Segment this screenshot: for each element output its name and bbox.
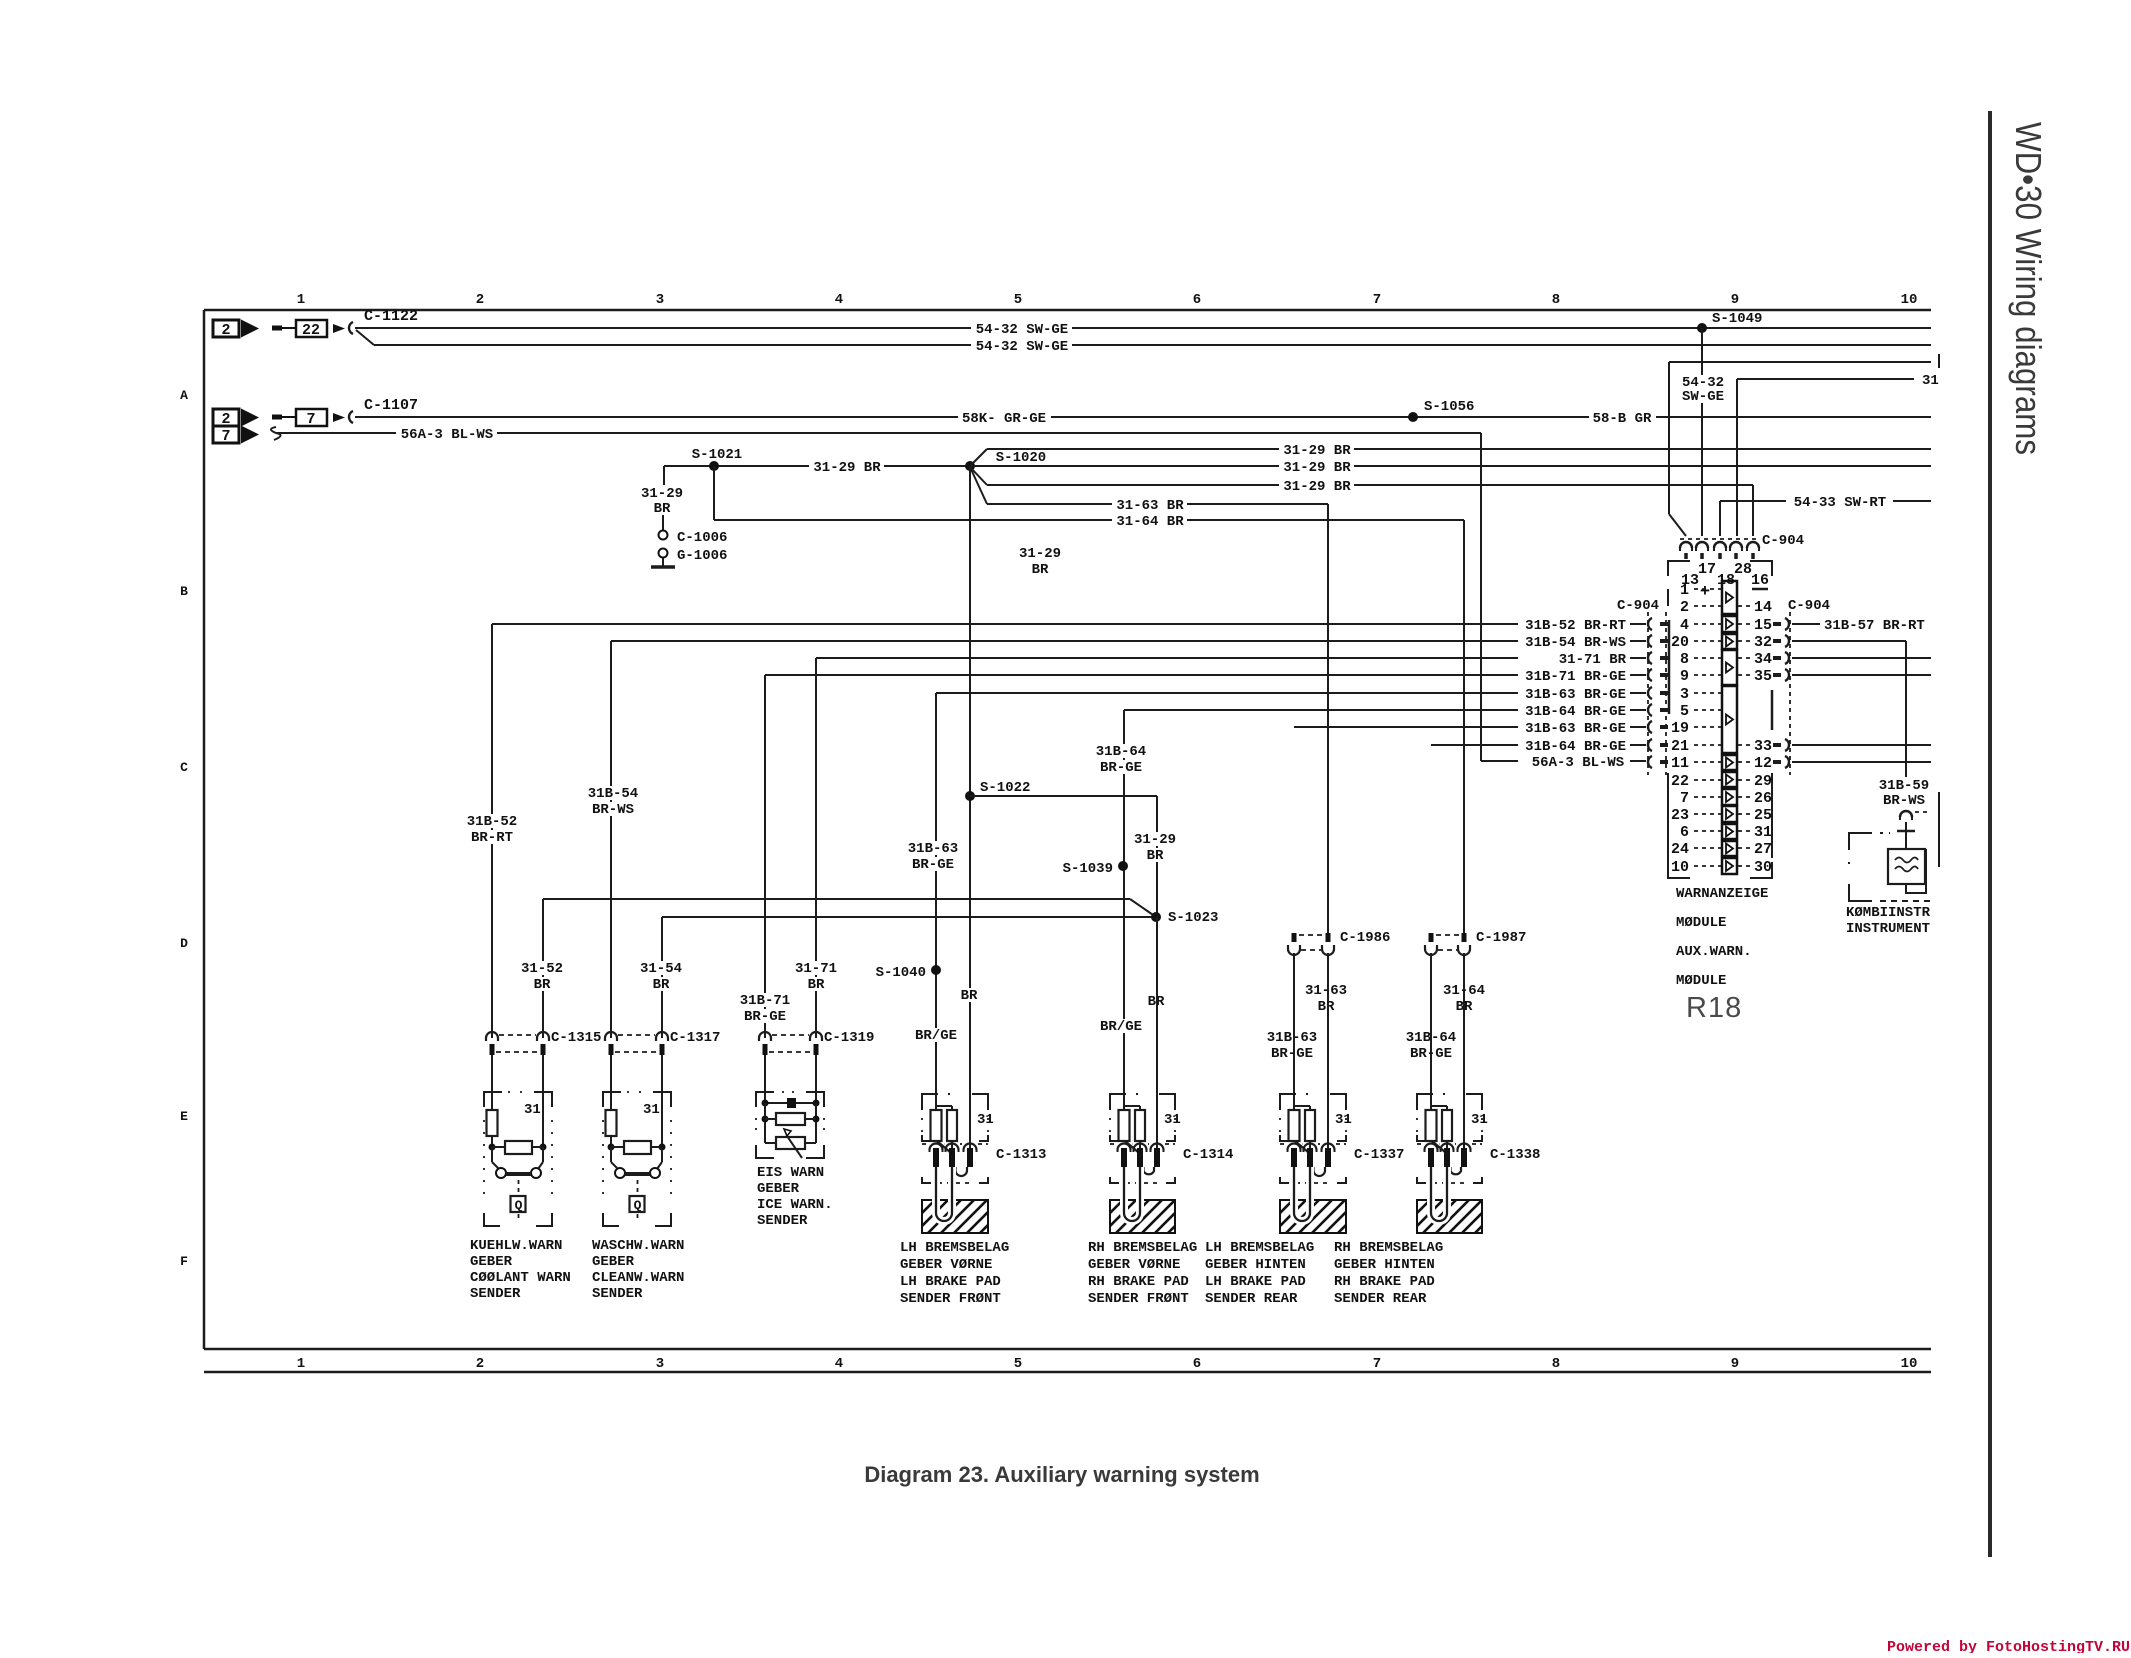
svg-text:3: 3 [656,1356,664,1372]
wire 31B-63 BR-GE horizontal (pin 19) [1294,726,1518,728]
svg-text:20: 20 [1671,634,1689,651]
pin 2 dashed lead [1694,605,1721,607]
pin 15 dashed lead (right) [1738,623,1751,625]
pin 34 dashed lead (right) [1738,657,1751,659]
svg-text:34: 34 [1754,651,1772,668]
svg-text:31B-54: 31B-54 [588,786,638,802]
svg-text:11: 11 [1671,755,1689,772]
svg-text:R18: R18 [1686,992,1742,1024]
svg-text:BR: BR [808,977,825,993]
svg-text:4: 4 [835,292,843,308]
svg-text:KØMBIINSTR: KØMBIINSTR [1846,905,1931,921]
wire 31B-63 BR-GE vertical (S-1040) [935,693,937,1110]
svg-text:SENDER FRØNT: SENDER FRØNT [1088,1291,1189,1307]
pin 21 dashed lead [1694,744,1721,746]
wire break squiggle 56A-3 [271,427,281,440]
module pin 33 right connector [1773,743,1781,747]
svg-text:6: 6 [1680,824,1689,841]
pin 5 dashed lead [1694,709,1721,711]
svg-text:LH BRAKE PAD: LH BRAKE PAD [900,1274,1001,1290]
module pin 34 right connector [1773,656,1781,660]
svg-text:31: 31 [1922,373,1939,389]
wire 31-29 BR vertical to sender 5 [1156,917,1158,1148]
svg-text:9: 9 [1680,668,1689,685]
gauge right edge wire [1925,849,1927,884]
pin 14 dashed lead (right) [1738,605,1751,607]
wire fan S-1020 up [970,449,987,466]
svg-text:3: 3 [1680,686,1689,703]
module right edge lower [1771,773,1773,858]
ice sender top branch [765,1102,816,1104]
wire 31-29 BR S-1021 to S-1020 [664,465,970,467]
svg-text:Q: Q [634,1198,642,1213]
ice sender lower branch [765,1142,816,1144]
svg-text:31B-57 BR-RT: 31B-57 BR-RT [1824,618,1925,634]
svg-text:25: 25 [1754,807,1772,824]
svg-text:BR-GE: BR-GE [744,1009,786,1025]
svg-text:GEBER: GEBER [757,1181,800,1197]
svg-text:C-1317: C-1317 [670,1030,720,1046]
LH rear brake pad sender [1280,1094,1296,1110]
svg-text:SENDER REAR: SENDER REAR [1205,1291,1298,1307]
pin 25 dashed lead (right) [1738,813,1751,815]
svg-text:LH BREMSBELAG: LH BREMSBELAG [1205,1240,1314,1256]
pin 31 dashed lead (right) [1738,830,1751,832]
svg-text:7: 7 [1680,790,1689,807]
C-904 top dashed line [1680,538,1759,540]
svg-text:S-1023: S-1023 [1168,910,1218,926]
svg-text:C-904: C-904 [1788,598,1830,614]
svg-text:31-29: 31-29 [1134,832,1176,848]
svg-text:31B-52: 31B-52 [467,814,517,830]
svg-text:31-71 BR: 31-71 BR [1559,652,1627,668]
svg-text:2: 2 [476,292,484,308]
pin 6 dashed lead [1694,830,1721,832]
svg-text:31B-63: 31B-63 [908,841,958,857]
contact loop halo [1431,1167,1447,1221]
pin 9 dashed lead [1694,674,1721,676]
wire 54-33 SW-RT vertical to pin 18 [1719,501,1721,536]
svg-text:BR: BR [1318,999,1335,1015]
svg-text:BR-GE: BR-GE [1100,760,1142,776]
svg-text:54-32 SW-GE: 54-32 SW-GE [976,322,1068,338]
LH front brake pad sender [922,1094,938,1110]
svg-text:1: 1 [297,292,305,308]
contact loop halo [1294,1167,1310,1221]
pad sense jumper [1451,1167,1462,1174]
svg-text:30: 30 [1754,859,1772,876]
svg-text:58K- GR-GE: 58K- GR-GE [962,411,1046,427]
svg-text:31B-52 BR-RT: 31B-52 BR-RT [1525,618,1626,634]
svg-text:6: 6 [1193,1356,1201,1372]
svg-text:BR: BR [654,501,671,517]
wire 54-32 SW-GE (2) [374,344,1931,346]
svg-text:BR: BR [653,977,670,993]
svg-text:31-29: 31-29 [1019,546,1061,562]
svg-text:26: 26 [1754,790,1772,807]
splice S-1039 [1118,861,1128,871]
svg-text:19: 19 [1671,720,1689,737]
wire 56A-3 BL-WS [276,432,1481,434]
wire 31-52 BR vertical [542,899,544,1038]
svg-text:31-63 BR: 31-63 BR [1116,498,1184,514]
svg-text:C-1319: C-1319 [824,1030,874,1046]
svg-text:58-B GR: 58-B GR [1593,411,1652,427]
svg-text:10: 10 [1901,1356,1918,1372]
svg-text:31-54: 31-54 [640,961,682,977]
pin 23 dashed lead [1694,813,1721,815]
svg-text:1: 1 [1680,582,1689,599]
svg-text:A: A [180,388,188,403]
wire 31-52 BR diagonal to S-1023 [1130,899,1156,917]
off-page connector arrow 2 (mid) [213,409,239,426]
svg-text:RH BRAKE PAD: RH BRAKE PAD [1334,1274,1435,1290]
svg-text:SENDER FRØNT: SENDER FRØNT [900,1291,1001,1307]
washer warn sender (WASCHW.WARN GEBER) [610,1055,612,1110]
svg-text:31B-71 BR-GE: 31B-71 BR-GE [1525,669,1626,685]
module left edge lower [1667,773,1669,862]
RH front brake pad sender [1110,1094,1126,1110]
svg-text:C-1313: C-1313 [996,1147,1046,1163]
svg-text:4: 4 [835,1356,843,1372]
wire 31-29 BR vertical S-1020 down [969,466,971,1148]
svg-text:8: 8 [1552,292,1560,308]
wire 31B-64 BR-GE to sender 7 [1430,953,1432,1110]
pin 1 dashed lead [1694,588,1721,590]
connector C-1317 [605,1032,617,1041]
svg-text:6: 6 [1193,292,1201,308]
diode D11 (pin 10/30) [1722,858,1737,874]
diode D1 (pins 1-2/14) [1722,581,1737,614]
svg-text:9: 9 [1731,292,1739,308]
variable resistor arrow [787,1136,802,1158]
wire 31-71 BR horizontal (pin 8) [816,657,1518,659]
pin 10 dashed lead [1694,865,1721,867]
wire 31-54 BR horizontal [662,916,1156,918]
svg-text:Q: Q [515,1198,523,1213]
diode D2 (pin 4/15) [1722,616,1737,632]
wire 58K- GR-GE / 58-B GR [355,416,1931,418]
svg-text:31-29 BR: 31-29 BR [1283,460,1351,476]
connector C-904 (top, module R18) [1680,542,1692,548]
pin 11 dashed lead [1694,761,1721,763]
svg-text:7: 7 [221,428,230,445]
svg-text:31: 31 [1335,1112,1352,1128]
wire 54-32 SW-GE S-1049 to pin 17 [1701,328,1703,536]
splice S-1040 [931,965,941,975]
polarity - mark [1752,588,1768,591]
pad sense jumper [1144,1167,1155,1174]
svg-text:31-71: 31-71 [795,961,837,977]
svg-text:C-1122: C-1122 [364,308,418,325]
svg-text:MØDULE: MØDULE [1676,973,1726,989]
splice S-1049 [1697,323,1707,333]
wire 54-32 SW-GE (1) [355,327,1931,329]
svg-text:B: B [180,584,188,599]
svg-text:G-1006: G-1006 [677,548,727,564]
svg-text:24: 24 [1671,841,1689,858]
wire S-1021 vertical drop [713,466,715,520]
svg-text:7: 7 [1373,1356,1381,1372]
wire 31-63 BR vertical to C-1986 [1327,504,1329,934]
svg-text:56A-3 BL-WS: 56A-3 BL-WS [1532,755,1624,771]
svg-text:SW-GE: SW-GE [1682,389,1724,405]
diode D3 (pin 20/32) [1722,634,1737,649]
diode D8 (pin 23/25) [1722,806,1737,822]
svg-text:BR/GE: BR/GE [1100,1019,1142,1035]
wire to module pin 13 [1669,361,1931,363]
wire 31-64 BR vertical to C-1987 [1463,520,1465,934]
pad sense jumper [1314,1167,1326,1176]
connector C-1315 [486,1032,498,1041]
svg-text:5: 5 [1680,703,1689,720]
svg-text:31B-63: 31B-63 [1267,1030,1317,1046]
wire pin 13 diagonal [1669,514,1686,536]
pin 12 dashed lead (right) [1738,761,1751,763]
svg-text:E: E [180,1109,188,1124]
svg-text:GEBER VØRNE: GEBER VØRNE [1088,1257,1180,1273]
wire pin 12 right [1792,761,1931,763]
svg-text:AUX.WARN.: AUX.WARN. [1676,944,1752,960]
svg-text:33: 33 [1754,738,1772,755]
svg-text:WARNANZEIGE: WARNANZEIGE [1676,886,1768,902]
module pin 12 right connector [1773,760,1781,764]
pad wear contact loop [936,1167,952,1221]
aux warning module R18 outline [1668,561,1690,576]
svg-text:31: 31 [977,1112,994,1128]
svg-text:MØDULE: MØDULE [1676,915,1726,931]
frame bottom border [204,1348,1931,1351]
wire 31B-52 BR-RT vertical [491,624,493,1038]
svg-text:27: 27 [1754,841,1772,858]
svg-text:Powered by FotoHostingTV.RU: Powered by FotoHostingTV.RU [1887,1639,2130,1653]
off-page connector arrow 7 [213,426,239,443]
svg-text:C: C [180,760,188,775]
wire 31B-63 BR-GE horizontal (pin 3) [936,692,1518,694]
pin 7 dashed lead [1694,796,1721,798]
module pin 15 right connector [1773,622,1781,626]
connector C-1122 pin [349,322,353,334]
svg-text:KUEHLW.WARN: KUEHLW.WARN [470,1238,562,1254]
svg-text:CØØLANT WARN: CØØLANT WARN [470,1270,571,1286]
svg-text:31B-59: 31B-59 [1879,778,1929,794]
svg-text:31B-64: 31B-64 [1096,744,1146,760]
svg-text:C-904: C-904 [1617,598,1659,614]
wire 31B-64 BR-GE vertical (S-1039) [1123,710,1125,1110]
diode D6 (pin 22/29) [1722,772,1737,787]
svg-text:S-1039: S-1039 [1063,861,1113,877]
wire 31B-71 BR-GE horizontal (pin 9) [765,674,1518,676]
svg-text:22: 22 [1671,773,1689,790]
svg-text:BR-RT: BR-RT [471,830,513,846]
svg-text:SENDER: SENDER [592,1286,643,1302]
off-page connector arrow 2 (top) [213,320,239,337]
diode D7 (pin 7/26) [1722,789,1737,805]
svg-text:7: 7 [306,411,315,428]
svg-text:C-1986: C-1986 [1340,930,1390,946]
wire 31-54 BR vertical [661,917,663,1038]
pin 35 dashed lead (right) [1738,674,1751,676]
svg-text:Diagram 23. Auxiliary warning: Diagram 23. Auxiliary warning system [864,1462,1259,1487]
svg-text:31B-64 BR-GE: 31B-64 BR-GE [1525,704,1626,720]
pin 20 dashed lead [1694,640,1721,642]
contact loop halo [1124,1167,1140,1221]
svg-text:RH BREMSBELAG: RH BREMSBELAG [1334,1240,1443,1256]
pad wear contact loop [1431,1167,1447,1221]
wire 31B-63 BR-GE to sender 6 [1293,953,1295,1110]
wire 54-33 SW-RT right segment [1893,500,1931,502]
module pin 35 right connector [1773,673,1781,677]
svg-text:2: 2 [1680,599,1689,616]
svg-text:BR: BR [1147,848,1164,864]
right border tick 2 [1938,792,1940,867]
connector pin into instrument cluster [1900,811,1912,817]
svg-text:S-1021: S-1021 [692,447,742,463]
pin 8 dashed lead [1694,657,1721,659]
svg-text:31B-63 BR-GE: 31B-63 BR-GE [1525,687,1626,703]
svg-text:54-33 SW-RT: 54-33 SW-RT [1794,495,1886,511]
svg-text:C-1987: C-1987 [1476,930,1526,946]
wire 31-63 BR [987,503,1328,505]
wire S-1022 to S-1023 vertical [1156,796,1158,917]
svg-text:31: 31 [643,1102,660,1118]
connector C-1987 [1429,933,1434,942]
svg-text:1: 1 [297,1356,305,1372]
wire pin 34 right [1792,657,1931,659]
ice warn sender (EIS WARN GEBER) [764,1055,766,1103]
svg-text:5: 5 [1014,292,1022,308]
wire ground stub lower [662,515,664,530]
bottom ruler line [204,1371,1931,1374]
svg-text:BR-WS: BR-WS [592,802,634,818]
svg-text:SENDER: SENDER [757,1213,808,1229]
frame top border [204,309,1931,312]
svg-text:31: 31 [524,1102,541,1118]
wire 31B-54 BR-WS horizontal (pin 20) [611,640,1518,642]
ground symbol G-1006 [651,565,675,569]
svg-text:29: 29 [1754,773,1772,790]
wire pin 33 right [1792,744,1931,746]
wire 31B-52 BR-RT horizontal (pin 4) [492,623,1518,625]
wire 31-29 BR (row1) [987,448,1931,450]
svg-text:S-1040: S-1040 [876,965,926,981]
wire S-1022 to S-1023 horizontal [970,795,1157,797]
pin 30 dashed lead (right) [1738,865,1751,867]
svg-text:S-1049: S-1049 [1712,311,1762,327]
svg-text:RH BREMSBELAG: RH BREMSBELAG [1088,1240,1197,1256]
ground lead [662,558,664,566]
svg-text:3: 3 [656,292,664,308]
connector C-1107 pin [349,411,353,423]
svg-text:31-29 BR: 31-29 BR [1283,479,1351,495]
contact loop halo [936,1167,952,1221]
RH rear brake pad sender [1417,1094,1433,1110]
svg-text:D: D [180,936,188,951]
diode D5 (pin 11/12) [1722,755,1737,770]
svg-text:C-1315: C-1315 [551,1030,601,1046]
svg-text:C-1337: C-1337 [1354,1147,1404,1163]
svg-text:BR-GE: BR-GE [1271,1046,1313,1062]
svg-text:56A-3 BL-WS: 56A-3 BL-WS [401,427,493,443]
ice sender resistor branch [765,1118,816,1120]
svg-text:GEBER: GEBER [592,1254,635,1270]
connector G-1006 [659,549,668,558]
svg-text:17: 17 [1698,561,1716,578]
wire 31-63 BR to sender 6 [1327,953,1329,1148]
svg-text:BR: BR [534,977,551,993]
svg-text:8: 8 [1552,1356,1560,1372]
svg-text:35: 35 [1754,668,1772,685]
svg-text:31: 31 [1471,1112,1488,1128]
svg-text:C-1314: C-1314 [1183,1147,1233,1163]
svg-text:GEBER HINTEN: GEBER HINTEN [1334,1257,1435,1273]
svg-text:31: 31 [1164,1112,1181,1128]
connector C-1986 [1292,933,1297,942]
svg-text:BR-GE: BR-GE [912,857,954,873]
splice S-1022 [965,791,975,801]
wire 56A-3 BL-WS to module pin 11 [1481,760,1518,762]
svg-text:16: 16 [1751,572,1769,589]
wire fan S-1020 down2 [970,467,987,504]
svg-text:WD•30 Wiring diagrams: WD•30 Wiring diagrams [2008,122,2049,455]
svg-text:31-29 BR: 31-29 BR [813,460,881,476]
svg-text:GEBER HINTEN: GEBER HINTEN [1205,1257,1306,1273]
svg-text:SENDER: SENDER [470,1286,521,1302]
svg-text:32: 32 [1754,634,1772,651]
svg-text:ICE WARN.: ICE WARN. [757,1197,833,1213]
wire 31-29 BR (row2) [970,465,1931,467]
wire 31B-54 BR-WS vertical [610,641,612,1038]
diode D9 (pin 6/31) [1722,824,1737,839]
pin 27 dashed lead (right) [1738,847,1751,849]
wire 31-64 BR horizontal [714,519,1464,521]
connector C-904 (left, module R18) [1647,612,1649,775]
svg-text:22: 22 [302,322,320,339]
svg-text:EIS WARN: EIS WARN [757,1165,824,1181]
svg-text:2: 2 [221,322,230,339]
svg-text:28: 28 [1734,561,1752,578]
svg-text:8: 8 [1680,651,1689,668]
wire 31-71 BR vertical [815,658,817,1038]
coolant warn sender (KUEHLW.WARN GEBER) [491,1055,493,1110]
diode D4 (pins 8-9/34-35) [1722,650,1737,685]
svg-text:31B-54 BR-WS: 31B-54 BR-WS [1525,635,1626,651]
pin 4 dashed lead [1694,623,1721,625]
svg-text:10: 10 [1671,859,1689,876]
svg-text:10: 10 [1901,292,1918,308]
wire pin 32 to instrument [1792,640,1906,642]
svg-text:21: 21 [1671,738,1689,755]
pin 29 dashed lead (right) [1738,779,1751,781]
svg-text:2: 2 [476,1356,484,1372]
pin 26 dashed lead (right) [1738,796,1751,798]
svg-text:54-32 SW-GE: 54-32 SW-GE [976,339,1068,355]
svg-text:F: F [180,1254,188,1269]
svg-text:CLEANW.WARN: CLEANW.WARN [592,1270,684,1286]
wire 31B-64 BR-GE horizontal (pin 21) [1431,744,1518,746]
svg-text:C-904: C-904 [1762,533,1804,549]
svg-text:INSTRUMENT: INSTRUMENT [1846,921,1930,937]
svg-text:WASCHW.WARN: WASCHW.WARN [592,1238,684,1254]
variable resistor (ice sender) [776,1137,805,1149]
svg-text:S-1056: S-1056 [1424,399,1474,415]
connector C-1319 [759,1032,771,1041]
page sidebar rule [1988,111,1992,1557]
svg-text:BR: BR [961,988,978,1004]
svg-text:5: 5 [1014,1356,1022,1372]
module pin 32 right connector [1773,639,1781,643]
wire into gauge [1905,822,1907,849]
